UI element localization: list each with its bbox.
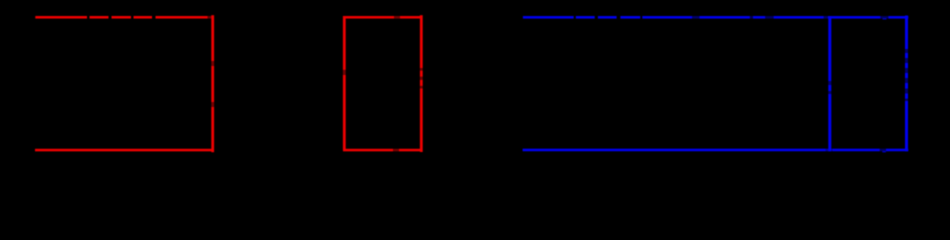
red box B bottom edge <box>343 149 423 152</box>
blue box right edge <box>905 16 908 152</box>
red box A right edge <box>211 15 214 152</box>
red box B right edge <box>420 15 423 152</box>
blue box bottom edge <box>523 149 909 153</box>
blue box divider edge <box>828 16 831 151</box>
red box A bottom edge <box>35 149 213 152</box>
blue box top edge (dashed segments) <box>523 16 908 19</box>
small dip of blue outline below bottom edge near x 884 <box>882 151 886 153</box>
small dip of blue outline below top edge near x 884 <box>883 18 887 19</box>
red box B top edge <box>343 16 423 19</box>
red box B left edge <box>343 16 346 151</box>
red box A top edge (dashed segments) <box>35 16 212 19</box>
